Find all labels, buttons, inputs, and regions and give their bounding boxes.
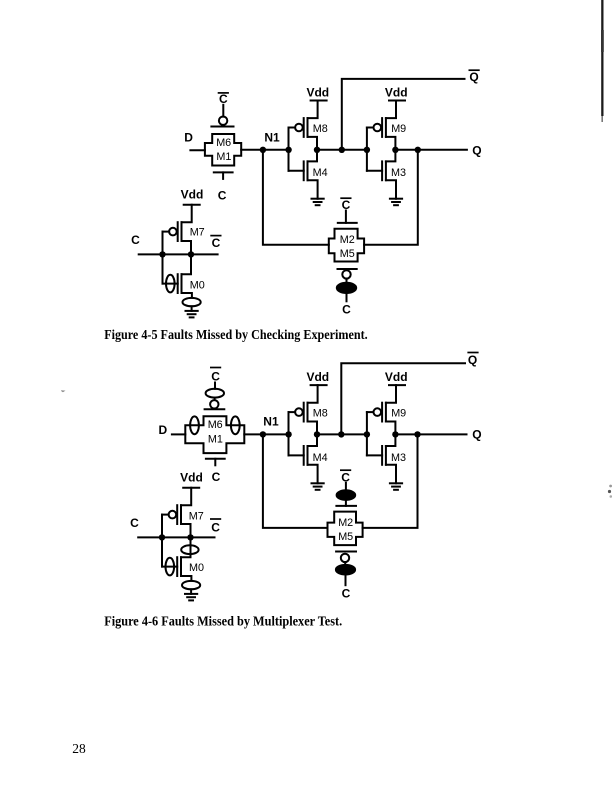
svg-text:M2: M2	[340, 234, 355, 246]
svg-text:M1: M1	[216, 151, 231, 163]
svg-text:Q: Q	[472, 143, 481, 157]
svg-text:M7: M7	[190, 227, 205, 239]
svg-text:C: C	[130, 516, 139, 530]
svg-text:N1: N1	[264, 130, 280, 144]
svg-text:Vdd: Vdd	[306, 370, 329, 384]
svg-text:C: C	[212, 236, 221, 250]
svg-text:M4: M4	[313, 167, 328, 179]
svg-text:Figure 4-6 Faults Missed by Mu: Figure 4-6 Faults Missed by Multiplexer …	[104, 613, 342, 628]
svg-text:M5: M5	[340, 248, 355, 260]
svg-text:C: C	[218, 188, 227, 202]
svg-text:M0: M0	[189, 562, 204, 574]
svg-text:M5: M5	[338, 531, 353, 543]
svg-text:M2: M2	[338, 517, 353, 529]
svg-text:M9: M9	[391, 408, 406, 420]
svg-text:C: C	[212, 470, 221, 484]
svg-text:M9: M9	[391, 123, 406, 135]
svg-text:C: C	[211, 520, 220, 534]
svg-text:M0: M0	[190, 279, 205, 291]
svg-text:M7: M7	[189, 511, 204, 523]
svg-text:C: C	[131, 233, 140, 247]
svg-text:Vdd: Vdd	[181, 187, 204, 201]
svg-text:M3: M3	[391, 452, 406, 464]
svg-text:C: C	[219, 92, 228, 106]
svg-text:C: C	[342, 198, 351, 212]
svg-text:Vdd: Vdd	[385, 370, 408, 384]
svg-text:M1: M1	[208, 433, 223, 445]
svg-text:C: C	[341, 470, 350, 484]
svg-text:Vdd: Vdd	[180, 470, 203, 484]
svg-text:D: D	[159, 423, 168, 437]
svg-text:C: C	[342, 303, 351, 317]
svg-text:M8: M8	[313, 408, 328, 420]
svg-text:C: C	[211, 370, 220, 384]
svg-text:Q: Q	[469, 70, 478, 84]
svg-text:Q: Q	[468, 353, 477, 367]
svg-text:D: D	[184, 131, 193, 145]
svg-text:M3: M3	[391, 167, 406, 179]
svg-text:M6: M6	[208, 419, 223, 431]
svg-text:M6: M6	[216, 137, 231, 149]
svg-text:28: 28	[72, 741, 86, 756]
svg-text:M4: M4	[313, 452, 328, 464]
svg-text:Q: Q	[472, 428, 481, 442]
svg-text:Vdd: Vdd	[306, 85, 329, 99]
svg-text:Vdd: Vdd	[385, 85, 408, 99]
svg-text:C: C	[342, 586, 351, 600]
svg-text:M8: M8	[313, 123, 328, 135]
svg-text:N1: N1	[263, 415, 279, 429]
svg-text:Figure 4-5 Faults Missed by Ch: Figure 4-5 Faults Missed by Checking Exp…	[104, 327, 368, 342]
